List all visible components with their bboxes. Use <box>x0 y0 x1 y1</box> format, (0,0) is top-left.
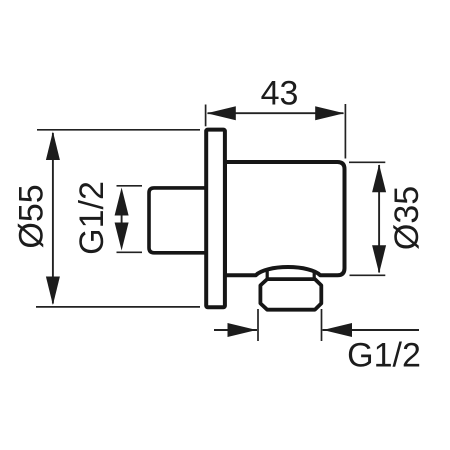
dimension Ø55: top arrowhead <box>46 132 60 161</box>
svg-text:Ø55: Ø55 <box>12 184 50 248</box>
dimension 43: left extension line <box>205 105 207 127</box>
outlet neck left edge <box>266 270 269 281</box>
dimension Ø55: bottom arrowhead <box>46 277 60 306</box>
dimension G1/2 (nipple): shaft <box>121 210 123 228</box>
dimension G1/2 (nipple): down arrowhead <box>115 223 129 251</box>
dimension 43: right arrowhead <box>315 106 344 120</box>
dimension Ø55: bottom extension line <box>36 306 200 308</box>
dimension 43: left arrowhead <box>207 106 236 120</box>
dimension Ø35: top extension line <box>349 161 385 163</box>
dimension G1/2 (nipple): top tick <box>117 185 143 187</box>
dimension Ø55: dimension line <box>52 133 54 304</box>
dimension 43: right extension line <box>344 104 346 159</box>
svg-text:G1/2: G1/2 <box>73 181 111 255</box>
nipple G1/2 (left threaded connector) <box>149 188 208 253</box>
dimension G1/2 (nipple): bottom tick <box>117 251 143 253</box>
dimension G1/2 (outlet): right extension line <box>321 309 323 341</box>
dimension G1/2 (outlet): right leader line <box>323 329 420 331</box>
dimension G1/2 (outlet): left extension line <box>257 309 259 341</box>
dimension G1/2 (outlet): right arrowhead <box>323 323 352 337</box>
outlet neck right edge <box>313 271 316 281</box>
dimension Ø35: dimension line <box>378 165 380 273</box>
dimension 43: dimension line <box>208 112 344 114</box>
svg-text:G1/2: G1/2 <box>347 337 421 375</box>
hex nut (bottom outlet) <box>260 279 321 310</box>
dimension Ø55: top extension line <box>37 129 200 131</box>
dimension Ø35: top arrowhead <box>372 164 386 192</box>
dimension G1/2 (nipple): up arrowhead <box>115 188 129 216</box>
dimension G1/2 (outlet): left arrowhead <box>228 323 257 337</box>
svg-text:43: 43 <box>261 74 299 112</box>
svg-text:Ø35: Ø35 <box>388 186 426 250</box>
dimension Ø35: bottom arrowhead <box>372 245 386 273</box>
dimension G1/2 (outlet): left leader line <box>214 329 257 331</box>
flange (wall plate) <box>206 130 225 308</box>
body (main elbow block with bottom outlet dome) <box>225 162 345 275</box>
dimension Ø35: bottom extension line <box>350 274 386 276</box>
